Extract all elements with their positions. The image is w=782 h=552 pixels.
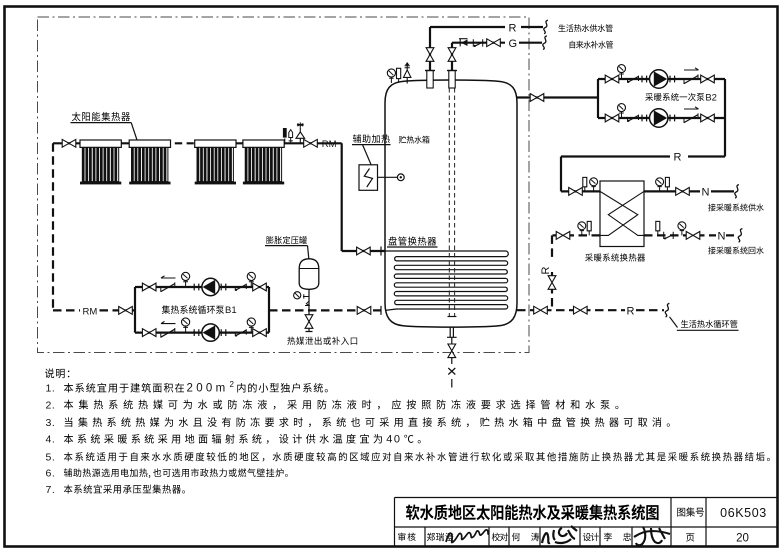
check valve: B1b [161,328,175,338]
svg-text:1.: 1. [46,383,56,395]
thermometer: exchanger return to tank [587,221,591,235]
valve: tank coil outlet (dashed line) [357,307,371,315]
title block outline [395,498,778,547]
heat exchanger body (采暖系统换热器) [600,181,644,247]
wire: collector return bottom run to RM label [53,309,80,311]
signature: 郑瑞澄 (scribble) [446,530,489,543]
flow arrow above check B2b [684,107,699,109]
signature: 李忠 (scribble) [634,527,670,545]
pressure gauge: B1a discharge [247,272,255,287]
valve: hot outlet riser [426,48,434,62]
wire: B1 bottom branch [135,332,269,334]
thermometer gauge: B2b suction [618,104,626,118]
title block: 审核 [398,533,415,542]
svg-text:06K503: 06K503 [720,506,767,520]
valve: DHW circulation line [574,306,588,314]
flex connector: B1a inlet [194,284,199,291]
thermometer gauge: B1b suction [182,318,190,333]
flow arrow above check B1a [161,276,176,278]
pipe break: make-up water [543,36,547,50]
check valve: B1a [161,282,175,292]
label: heat medium drain or fill port [287,337,357,345]
drain cock at expansion tank stem [305,301,310,305]
flex connector: B1b inlet [194,329,199,336]
svg-text:R: R [540,266,552,274]
note 7 text [64,485,185,494]
solar collector panel 1 [80,140,121,184]
leader line: expansion tank [308,246,309,259]
valve: B2a discharge [701,75,715,83]
wire: expansion tank stem [308,289,310,310]
label: DHW supply pipe [558,24,612,32]
thermometer: exchanger hot inlet [583,177,587,191]
wire: B1 outlet to tank coil outlet (dashed, with expansion tee) [269,309,385,311]
flex connector: B2a inlet [642,76,647,83]
wire: hot water supply after R label [521,26,543,28]
flex connector: B1a outlet [221,284,226,291]
wire: tank drain dashed stub [451,379,453,388]
title block: 校对 [492,533,508,542]
label: to heating system return [708,247,764,255]
leader line: auxiliary heating [363,145,372,165]
check valve: B2b discharge [684,113,698,123]
pressure gauge: exchanger return to tank [578,222,586,236]
tank nozzle: cold inlet sleeve [447,71,457,89]
label: heating system heat exchanger [585,253,645,261]
title block: 何涛 [512,533,539,541]
solar collector panel 3 [195,140,236,184]
note 4 text (b) [404,435,420,444]
check valve: B1a discharge [235,284,246,291]
label: to heating system supply [708,204,764,212]
pressure gauge: B1b discharge [247,318,255,333]
valve: heating supply line [676,188,690,196]
title: diagram name [406,504,659,520]
valve: make-up line [487,39,501,47]
wire: B1 left manifold [134,287,136,333]
heater element port (circle on tank wall) [397,174,404,181]
pipe break: heating supply [735,185,739,199]
flow arrow above check B2a [684,68,699,70]
label underline: DHW circulation pipe [677,329,739,331]
svg-text:20: 20 [736,533,749,545]
title block: 郑瑞澄 [427,533,454,541]
flex connector: B2a outlet [670,76,675,83]
valve: DHW circulation at tank [534,306,548,314]
wire: hot water supply run to R label [430,26,505,28]
valve: B1a discharge [253,283,267,291]
svg-text:RM: RM [83,307,98,318]
valve: heat medium drain/fill [305,315,313,329]
pressure gauge: heating return [678,222,686,236]
pipe break: DHW supply [544,20,548,34]
note 5 text [64,452,770,461]
automatic air vent on collector outlet [296,122,305,143]
heater element connection line [378,176,398,178]
svg-text:R: R [627,305,635,317]
label: heating primary pump B2 [645,93,704,101]
note 3 text [65,417,670,427]
pump B2b (heating primary pump) [650,109,668,127]
label underline: auxiliary heating [352,144,391,146]
valve: return down-leg [548,276,556,290]
pressure gauge at expansion tank [294,292,309,299]
wire: cold make-up run [452,42,505,44]
leader line: solar collectors [131,123,137,140]
svg-text:200m: 200m [187,383,229,395]
wire: B2 left manifold [597,79,599,118]
wire: heating return N to exchanger (dashed) [644,234,734,236]
swing check: heating return [664,232,674,240]
wire: B1 right manifold [268,287,270,333]
valve: tank outlet to B2 [530,94,544,102]
svg-text:G: G [509,38,518,50]
pipe break: heating return [738,229,742,243]
note 1 text (a) [64,383,184,393]
wire: tank drain pipe [447,327,457,364]
label: collector circulating pump B1 [162,305,224,314]
svg-text:R: R [674,152,682,164]
thermometer: exchanger heating supply [665,177,669,191]
valve: collector array outlet (right) [304,139,318,147]
valve: B1b discharge [253,329,267,337]
label: make-up water pipe [570,41,613,49]
solar collector panel 2 [129,140,170,184]
title block row-2 dividers [425,527,632,546]
title block: 图集号 [677,507,704,516]
flow arrow above check B1b [161,321,176,323]
leader line: DHW circulation pipe [670,317,678,328]
flex connector: B2b inlet [642,115,647,122]
label: coil heat exchanger [388,236,436,245]
wire: B2 right manifold down [724,79,726,157]
tank internal coil heat exchanger (盘管换热器) [385,251,508,310]
wire: B2 outlet run R to heat exchanger (gap at R label) [561,157,725,192]
wire: collector supply header line (left end to RM) [53,142,342,144]
valve: collector array inlet (left) [62,139,76,147]
pump B1b (collector loop circulating pump) [202,324,219,341]
swing check valve on make-up line [473,39,482,47]
svg-text:B2: B2 [705,92,717,103]
note 4 text (a) [64,434,382,444]
thermometer well on collector outlet [283,128,287,143]
wire: expansion tank drain below line [306,310,313,331]
svg-text:B1: B1 [225,305,237,316]
valve: tank drain [448,344,456,358]
storage tank (贮热水箱) shell [385,80,517,327]
pressure gauge: exchanger hot inlet [590,178,598,192]
label: solar collectors [72,112,130,121]
title block: 页 [686,533,694,541]
tank nozzle: hot outlet sleeve [425,71,435,89]
check valve: B2b suction [627,115,638,122]
check valve: B2a suction [627,76,638,83]
label: expansion tank [266,236,307,244]
valve: B2a suction [605,75,619,83]
valve: B2b suction [605,114,619,122]
wire: B2 top branch [598,78,725,80]
label: DHW circulation pipe [681,320,737,328]
wire: exchanger hot-return (dashed) to down-leg [552,235,600,258]
wire: collector supply down-pipe RM to coil inlet [342,143,385,251]
pressure gauge on tank top [387,0,395,83]
note 6 text [64,468,288,478]
notes heading 说明: [45,368,69,378]
svg-text:40: 40 [386,434,401,446]
wire: DHW circulation line (dashed) tank to break [517,309,664,311]
solar collector panel 4 [243,140,284,184]
check valve: B2a discharge [684,74,698,84]
label underline: solar collectors [71,122,132,124]
wire: collector header dashed continuation break [175,142,194,144]
check valve: B1b discharge [235,329,246,336]
title block: 设计 [583,533,599,541]
wire: hot water outlet riser R [429,27,431,70]
thermometer: heating return [656,221,660,235]
svg-text:4.: 4. [46,434,56,446]
wire: tank drain cap X [448,368,455,375]
pump B2a (heating primary pump) [650,70,668,88]
signature: 何涛 (scribble) [542,526,577,543]
pipe break: DHW circulation [665,303,669,317]
svg-text:3.: 3. [46,417,56,429]
valve: B1a suction [142,283,156,291]
valve: B2b discharge [701,114,715,122]
wire: exchanger hot-out to heating supply N [644,190,734,192]
pressure gauge: exchanger heating supply [656,178,664,192]
valve: exchanger hot inlet [569,188,583,196]
thermometer gauge: B1a suction [182,272,190,287]
wire: cold make-up riser G [451,43,453,70]
wire: RM label to B1 pump group [100,309,136,311]
pump B1a (collector loop circulating pump) [202,278,219,295]
valve: B1b suction [142,329,156,337]
valve: tank coil inlet [357,247,371,255]
valve: cold make-up riser [448,48,456,62]
backflow preventer on make-up line [459,39,468,47]
svg-text:7.: 7. [46,484,56,496]
svg-text:6.: 6. [46,467,56,479]
wire: cold make-up after G label [519,42,542,44]
expansion tank (膨胀定压罐) [299,259,319,290]
label underline: coil heat exchanger [387,246,438,248]
thermometer on tank top [397,68,401,83]
valve: heating return line [686,232,700,240]
svg-text:2.: 2. [46,399,56,411]
sensor vial on collector outlet [289,130,293,144]
wire: collector return riser (dashed, left side) [52,143,54,310]
label underline: expansion tank [265,245,308,247]
heat exchanger internal cross pattern [600,191,644,235]
wire: B2 bottom branch [598,117,725,119]
label: auxiliary heating [353,134,390,143]
wire: exchanger return down-leg with R label gap [551,272,553,310]
flange: coil inlet at tank wall [380,247,382,256]
title block: 李忠 [604,533,631,541]
note 1 text (b) [237,383,328,393]
svg-text:R: R [509,22,517,34]
safety valve on tank top [404,62,411,84]
svg-text:2: 2 [230,380,235,389]
svg-text:5.: 5. [46,451,56,463]
svg-text:N: N [718,231,726,243]
svg-text:N: N [702,186,710,198]
label: storage tank [399,136,430,144]
flex connector: B1b outlet [221,329,226,336]
valve: B1 group common suction [119,307,133,315]
valve: exchanger return line [556,232,570,240]
flex connector: B2b outlet [670,115,675,122]
auxiliary heater box (辅助加热) [359,165,378,191]
wire: B1 top branch [135,286,269,288]
svg-text:RM: RM [322,139,337,150]
flange: coil outlet at tank wall [380,306,382,315]
note 2 text [64,400,619,410]
system boundary (dash-dot box) [38,17,530,353]
wire: tank to B2 pump group [517,96,598,98]
cold water dip tube inside tank (dashed) [449,88,454,316]
thermometer gauge: B2a suction [618,65,626,79]
